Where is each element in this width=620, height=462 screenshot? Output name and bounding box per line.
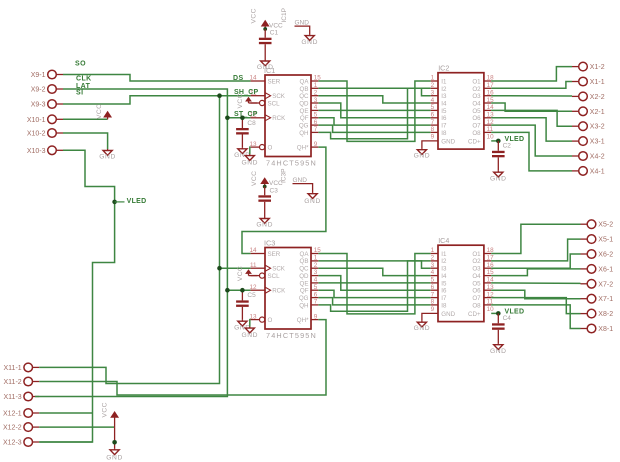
svg-text:I8: I8 [441, 302, 447, 309]
svg-text:C4: C4 [503, 315, 512, 322]
svg-text:12: 12 [249, 284, 257, 291]
svg-text:GND: GND [304, 198, 321, 205]
svg-text:GND: GND [490, 348, 507, 355]
wire net SH_CP/SI from X9-3 to IC1 SCK, down to IC3 SCK and X11-1 [63, 96, 251, 104]
capacitor C4 on VLED [497, 313, 499, 323]
svg-text:9: 9 [314, 313, 318, 320]
svg-text:O7: O7 [472, 295, 481, 302]
capacitor C2 on VLED [497, 141, 499, 151]
wire QG to I8 [318, 298, 430, 305]
svg-text:I7: I7 [441, 295, 447, 302]
wire QG to I8 [318, 125, 430, 132]
wire net VLED from X10-3 down to X12-3 [39, 150, 114, 442]
svg-text:I7: I7 [441, 123, 447, 130]
VCC arrow IC3P [261, 178, 268, 187]
svg-text:IC3P: IC3P [281, 169, 288, 183]
svg-text:6: 6 [431, 112, 435, 119]
junction GND stem [112, 440, 117, 445]
ground below C1 [257, 60, 274, 72]
svg-text:O6: O6 [472, 288, 481, 295]
svg-text:O7: O7 [472, 123, 481, 130]
svg-text:GND: GND [257, 64, 274, 71]
junction SH_CP IC3 [217, 266, 222, 271]
svg-text:O3: O3 [472, 93, 481, 100]
svg-text:SER: SER [268, 251, 281, 258]
svg-text:I1: I1 [441, 251, 447, 258]
svg-text:O2: O2 [472, 86, 481, 93]
svg-text:3: 3 [431, 262, 435, 269]
svg-text:X9-1: X9-1 [31, 72, 46, 79]
svg-text:X11-1: X11-1 [4, 365, 22, 372]
svg-text:GND: GND [293, 177, 308, 184]
svg-text:I6: I6 [441, 288, 447, 295]
connector X12-2 [3, 423, 39, 432]
capacitor C8 on ST_CP [241, 118, 243, 128]
wire QC to I4 [318, 96, 430, 103]
svg-text:O5: O5 [472, 108, 481, 115]
svg-text:VCC: VCC [96, 104, 103, 119]
svg-text:4: 4 [314, 277, 318, 284]
svg-text:10: 10 [487, 133, 495, 140]
svg-text:QH*: QH* [297, 145, 309, 152]
svg-text:O8: O8 [472, 130, 481, 137]
svg-text:X2-1: X2-1 [590, 109, 605, 116]
capacitor C3 [264, 187, 266, 196]
svg-text:9: 9 [431, 133, 435, 140]
svg-text:I2: I2 [441, 86, 447, 93]
connector X7-1 [581, 294, 614, 303]
junction IC1P [263, 27, 267, 31]
svg-text:6: 6 [314, 119, 318, 126]
wire O8 to output connector [491, 132, 572, 171]
svg-text:GND: GND [301, 39, 318, 46]
junction ST_CP IC3 [225, 288, 230, 293]
svg-text:1: 1 [431, 75, 435, 82]
svg-text:QC: QC [299, 266, 309, 273]
wire QF to I7 [318, 290, 430, 297]
svg-text:VCC: VCC [251, 171, 258, 186]
svg-text:13: 13 [249, 313, 257, 320]
svg-text:1: 1 [314, 82, 318, 89]
svg-text:VCC: VCC [251, 8, 258, 23]
svg-text:I2: I2 [441, 258, 447, 265]
svg-text:QF: QF [300, 288, 309, 295]
svg-text:X1-1: X1-1 [590, 79, 605, 86]
VCC arrow IC1P [262, 21, 269, 30]
svg-text:X10-1: X10-1 [27, 117, 46, 124]
wire ST_CP stub to IC3 RCK [227, 289, 250, 291]
svg-text:9: 9 [314, 141, 318, 148]
svg-text:74HCT595N: 74HCT595N [266, 158, 317, 167]
svg-text:QD: QD [299, 273, 309, 280]
svg-text:QG: QG [299, 123, 309, 130]
svg-text:7: 7 [314, 299, 318, 306]
svg-text:CD+: CD+ [468, 311, 481, 318]
ground at X12 [106, 448, 123, 461]
svg-text:VCC: VCC [102, 402, 109, 417]
svg-text:3: 3 [431, 89, 435, 96]
svg-text:X12-1: X12-1 [3, 411, 22, 418]
svg-text:X3-1: X3-1 [590, 139, 605, 146]
wire O8 to output connector [491, 305, 580, 329]
svg-text:2: 2 [314, 262, 318, 269]
connector X9-3 [31, 100, 63, 109]
svg-text:QB: QB [300, 86, 309, 93]
svg-text:IC3: IC3 [264, 238, 275, 247]
connector X11-3 [4, 392, 40, 401]
connector X10-2 [27, 129, 63, 138]
connector X5-2 [581, 220, 614, 229]
connector X6-2 [581, 250, 614, 259]
junction SH_CP [217, 93, 222, 98]
wire O7 to output connector [491, 125, 572, 156]
wire net SO from IC3 QH* to X11-2 [39, 320, 326, 395]
svg-text:5: 5 [431, 277, 435, 284]
svg-text:SO: SO [75, 61, 86, 68]
capacitor C4 [492, 323, 505, 330]
svg-text:2: 2 [431, 255, 435, 262]
connector X9-1 [31, 70, 63, 79]
connector X9-2 [31, 85, 63, 94]
svg-text:GND: GND [441, 138, 455, 145]
wire ST_CP stub to IC1 RCK [227, 117, 250, 119]
svg-text:2: 2 [314, 89, 318, 96]
connector X3-1 [572, 137, 605, 146]
svg-text:X5-1: X5-1 [598, 237, 613, 244]
svg-text:SI: SI [76, 90, 83, 97]
svg-text:GND: GND [241, 160, 258, 167]
svg-text:SCL: SCL [268, 101, 281, 108]
svg-text:GND: GND [414, 325, 431, 332]
svg-text:4: 4 [314, 104, 318, 111]
svg-text:X8-2: X8-2 [598, 311, 613, 318]
svg-text:X11-3: X11-3 [4, 394, 22, 401]
svg-text:RCK: RCK [272, 115, 286, 122]
connector X7-2 [581, 280, 614, 289]
wire SH_CP vertical [39, 96, 219, 384]
svg-text:QH: QH [299, 130, 308, 137]
wire O2 to output connector [491, 239, 580, 261]
VCC supply at X10-1 [104, 112, 111, 120]
svg-text:O5: O5 [472, 280, 481, 287]
svg-text:GND: GND [490, 176, 507, 183]
wire driver GND pin to ground [422, 141, 438, 148]
svg-text:X10-3: X10-3 [27, 148, 46, 155]
svg-text:QA: QA [300, 78, 310, 85]
svg-text:O2: O2 [472, 258, 481, 265]
ground below C4 [490, 343, 507, 355]
svg-text:SCL: SCL [268, 273, 281, 280]
connector X6-1 [581, 265, 614, 274]
svg-text:I5: I5 [441, 280, 447, 287]
svg-text:X12-3: X12-3 [3, 440, 22, 447]
ground at IC3 O pin [241, 327, 258, 340]
ground at IC1P GND pin [301, 34, 318, 46]
svg-text:X3-2: X3-2 [590, 124, 605, 131]
svg-text:GND: GND [414, 153, 431, 160]
svg-text:GND: GND [99, 154, 116, 161]
svg-text:7: 7 [431, 291, 435, 298]
connector X5-1 [581, 235, 614, 244]
svg-text:I3: I3 [441, 93, 447, 100]
svg-text:SCK: SCK [272, 93, 286, 100]
svg-text:CLK: CLK [76, 76, 92, 83]
ground below C8 [234, 147, 251, 159]
svg-text:9: 9 [431, 306, 435, 313]
svg-text:3: 3 [314, 269, 318, 276]
svg-text:10: 10 [487, 306, 495, 313]
ground at X10-2 [99, 149, 116, 161]
wire O2 to output connector [491, 82, 572, 89]
connector X1-2 [572, 62, 605, 71]
wire IC1 O pin to ground [249, 147, 252, 154]
wire QA to I1 [318, 254, 430, 314]
svg-text:O3: O3 [472, 266, 481, 273]
svg-text:O1: O1 [472, 251, 481, 258]
wire O5 to output connector [491, 282, 580, 285]
svg-text:IC1P: IC1P [281, 8, 288, 22]
wire GND stem at X12 [114, 427, 116, 448]
svg-text:O: O [268, 145, 273, 152]
wire QH to I2 [318, 261, 430, 311]
svg-text:QB: QB [300, 258, 309, 265]
svg-text:VCC: VCC [237, 93, 244, 108]
connector X11-2 [4, 377, 40, 386]
svg-text:14: 14 [249, 247, 257, 254]
wire QC to I4 [318, 268, 430, 275]
wire QB to I3 [318, 261, 430, 268]
svg-text:5: 5 [314, 284, 318, 291]
svg-text:I3: I3 [441, 266, 447, 273]
wire IC1 QH* to IC3 SER [242, 147, 326, 253]
wire O1 to output connector [491, 224, 580, 253]
capacitor C3 [258, 195, 271, 202]
ground below C3 [256, 217, 273, 229]
svg-text:4: 4 [431, 269, 435, 276]
svg-text:X4-2: X4-2 [590, 154, 605, 161]
svg-text:IC2: IC2 [438, 64, 449, 73]
svg-text:I8: I8 [441, 130, 447, 137]
junction IC3P [263, 185, 267, 189]
svg-text:X8-1: X8-1 [598, 326, 613, 333]
svg-text:11: 11 [250, 262, 257, 269]
wire X10-1 to VCC [63, 118, 108, 120]
ground below C2 [490, 171, 507, 183]
wire O7 to output connector [491, 298, 580, 314]
wire QE to I5 [318, 282, 430, 284]
svg-text:QD: QD [299, 101, 309, 108]
svg-text:IC4: IC4 [438, 236, 449, 245]
svg-text:X12-2: X12-2 [3, 425, 22, 432]
svg-text:I4: I4 [441, 101, 447, 108]
IC IC3 74HCT595N shift register [249, 238, 321, 339]
wire O1 to output connector [491, 67, 572, 81]
svg-text:RCK: RCK [272, 288, 286, 295]
svg-text:14: 14 [249, 75, 257, 82]
svg-text:QE: QE [300, 280, 309, 287]
ground below C5 [234, 320, 251, 332]
wire CD+ to VLED rail [491, 312, 498, 314]
wire QB to I3 [318, 88, 430, 95]
svg-text:X9-2: X9-2 [31, 87, 46, 94]
svg-text:X11-2: X11-2 [4, 379, 22, 386]
svg-text:I4: I4 [441, 273, 447, 280]
capacitor C5 on ST_CP [241, 290, 243, 300]
svg-text:X2-2: X2-2 [590, 94, 605, 101]
wire IC3 O pin to ground [249, 320, 252, 327]
svg-text:I6: I6 [441, 115, 447, 122]
svg-text:QA: QA [300, 251, 310, 258]
connector X1-1 [572, 77, 605, 86]
wire O4 to output connector [491, 269, 580, 276]
svg-text:GND: GND [106, 455, 123, 462]
svg-text:QC: QC [299, 93, 309, 100]
wire O6 to output connector [491, 118, 572, 141]
junction VLED [112, 200, 117, 205]
IC IC4 driver array [431, 236, 494, 321]
VCC tie at IC1 SCL [237, 93, 257, 108]
svg-text:QH: QH [299, 302, 308, 309]
svg-text:1: 1 [314, 255, 318, 262]
wire QD to I6 [318, 276, 430, 291]
connector X8-1 [581, 324, 614, 333]
svg-text:QG: QG [299, 295, 309, 302]
junction ST_CP [225, 116, 230, 121]
wire X10-2 to ground [63, 133, 108, 149]
svg-text:4: 4 [431, 97, 435, 104]
svg-text:O8: O8 [472, 302, 481, 309]
capacitor C8 [236, 128, 249, 135]
svg-text:VCC: VCC [237, 266, 244, 281]
wire QH to I2 [318, 88, 430, 139]
svg-text:GND: GND [241, 332, 258, 339]
svg-text:7: 7 [431, 119, 435, 126]
connector X4-2 [572, 152, 605, 161]
svg-text:13: 13 [249, 141, 257, 148]
wire QA to I1 [318, 81, 430, 141]
wire O5 to output connector [491, 110, 572, 126]
connector X2-1 [572, 107, 605, 116]
wire QF to I7 [318, 118, 430, 125]
connector X3-2 [572, 122, 605, 131]
wire O3 to output connector [491, 254, 580, 268]
svg-text:DS: DS [233, 75, 244, 82]
svg-text:O4: O4 [472, 273, 481, 280]
IC IC1 74HCT595N shift register [249, 66, 321, 168]
connector X10-3 [27, 146, 63, 155]
svg-text:X6-1: X6-1 [598, 266, 613, 273]
wire O6 to output connector [491, 290, 580, 299]
svg-text:X10-2: X10-2 [27, 131, 46, 138]
wire CD+ to VLED rail [491, 140, 498, 142]
svg-text:I5: I5 [441, 108, 447, 115]
svg-text:I1: I1 [441, 78, 447, 85]
wire X12-3 stub [39, 441, 92, 443]
svg-text:2: 2 [431, 82, 435, 89]
svg-text:GND: GND [441, 311, 455, 318]
connector X4-1 [572, 167, 605, 176]
ground at IC3P GND pin [304, 192, 321, 205]
connector X2-2 [572, 92, 605, 101]
svg-text:3: 3 [314, 97, 318, 104]
VCC tie at IC3 SCL [237, 266, 257, 281]
svg-text:ST_CP: ST_CP [234, 111, 258, 118]
svg-text:74HCT595N: 74HCT595N [266, 331, 317, 340]
capacitor C1 [264, 29, 266, 38]
svg-text:X4-1: X4-1 [590, 168, 605, 175]
svg-text:SCK: SCK [272, 266, 286, 273]
svg-text:X7-2: X7-2 [598, 281, 613, 288]
connector X12-1 [3, 409, 39, 418]
svg-text:6: 6 [431, 284, 435, 291]
svg-text:5: 5 [314, 112, 318, 119]
capacitor C1 [259, 38, 272, 45]
svg-text:1: 1 [431, 247, 435, 254]
wire O4 to output connector [491, 103, 572, 111]
svg-text:X9-3: X9-3 [31, 102, 46, 109]
svg-text:QF: QF [300, 115, 309, 122]
wire O3 to output connector [491, 95, 572, 97]
svg-text:GND: GND [256, 222, 273, 229]
svg-text:QE: QE [300, 108, 309, 115]
wire net DS from X9-1 to IC1 SER [63, 75, 251, 82]
svg-text:O: O [268, 317, 273, 324]
svg-text:VLED: VLED [127, 198, 147, 205]
svg-text:6: 6 [314, 291, 318, 298]
wire SH_CP stub to IC3 SCK [220, 267, 251, 269]
svg-text:C3: C3 [270, 187, 279, 194]
svg-text:C1: C1 [270, 29, 279, 36]
IC IC2 driver array [431, 64, 494, 149]
svg-text:8: 8 [431, 299, 435, 306]
wire X12-2 to VCC [39, 426, 114, 428]
svg-text:X1-2: X1-2 [590, 64, 605, 71]
ground at driver GND pin [414, 148, 431, 160]
svg-text:O4: O4 [472, 101, 481, 108]
connector X8-2 [581, 309, 614, 318]
svg-text:8: 8 [431, 126, 435, 133]
connector X10-1 [27, 115, 63, 124]
connector X11-1 [4, 363, 40, 372]
svg-text:X6-2: X6-2 [598, 252, 613, 259]
svg-text:X7-1: X7-1 [598, 296, 613, 303]
svg-text:5: 5 [431, 104, 435, 111]
svg-text:C2: C2 [503, 143, 512, 150]
connector X12-3 [3, 438, 39, 447]
ground at IC1 O pin [241, 154, 258, 167]
capacitor C5 [236, 300, 249, 307]
ground at driver GND pin [414, 321, 431, 333]
wire QE to I5 [318, 109, 430, 111]
wire X12-1 tap [39, 412, 92, 414]
VCC supply at X12 [111, 412, 118, 427]
wire driver GND pin to ground [422, 313, 438, 320]
capacitor C2 [492, 151, 505, 158]
svg-text:QH*: QH* [297, 317, 309, 324]
svg-text:X5-2: X5-2 [598, 222, 613, 229]
svg-text:CD+: CD+ [468, 138, 481, 145]
svg-text:O1: O1 [472, 78, 481, 85]
svg-text:SER: SER [268, 78, 281, 85]
wire net ST_CP/LAT from X9-2 down to IC3 RCK and X11-3 [35, 89, 227, 397]
svg-text:7: 7 [314, 126, 318, 133]
svg-text:O6: O6 [472, 115, 481, 122]
svg-text:C8: C8 [247, 120, 256, 127]
wire QD to I6 [318, 103, 430, 118]
svg-text:C5: C5 [247, 292, 256, 299]
